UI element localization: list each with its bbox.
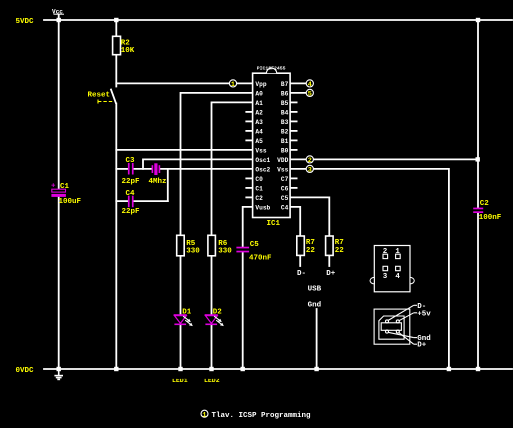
svg-text:IC1: IC1 <box>267 220 281 228</box>
wire leader D- <box>388 305 414 320</box>
resistor R5 <box>177 235 185 256</box>
svg-text:Vusb: Vusb <box>255 205 270 212</box>
svg-text:C1: C1 <box>255 186 263 193</box>
wire LED D1 to rail <box>180 324 182 369</box>
connector USB plug <box>374 305 417 344</box>
svg-text:1: 1 <box>202 411 206 419</box>
svg-text:Gnd: Gnd <box>308 301 322 309</box>
node point 2 VDD <box>306 156 313 165</box>
capacitor C2 <box>473 200 502 222</box>
resistor R8 <box>326 236 334 255</box>
resistor R6 <box>208 235 216 256</box>
pin stub C6 <box>290 187 297 189</box>
wire A0 net <box>181 93 253 235</box>
pin stub C1 <box>246 187 252 189</box>
label LED1 clipped <box>172 377 220 384</box>
wire 5VDC top rail <box>44 19 512 21</box>
wire 0VDC bottom rail <box>44 368 512 370</box>
svg-text:C2: C2 <box>255 195 263 202</box>
svg-text:330: 330 <box>218 247 232 255</box>
svg-text:D+: D+ <box>417 342 427 350</box>
svg-text:VDD: VDD <box>277 157 288 164</box>
node bottom rail / reset column <box>114 367 118 371</box>
wire gnd to C4 <box>116 200 128 202</box>
svg-text:1: 1 <box>231 81 235 89</box>
svg-text:USB: USB <box>308 285 322 293</box>
svg-text:C0: C0 <box>255 176 263 183</box>
node bottom rail / C2 <box>476 367 480 371</box>
node VDD / C2 column <box>476 157 480 161</box>
wire B7 to point 4 <box>290 82 307 84</box>
svg-text:22: 22 <box>306 247 316 255</box>
pin stub A4 <box>246 130 252 132</box>
wire leader +5v <box>399 313 414 321</box>
pin stub A3 <box>246 120 252 122</box>
svg-text:4: 4 <box>308 81 312 89</box>
connector USB pads <box>370 246 414 292</box>
svg-text:+5v: +5v <box>417 310 431 318</box>
IC U1 left pin names <box>255 81 270 212</box>
LED D2 <box>205 309 224 327</box>
wire point 3 to right column <box>313 169 449 369</box>
power symbol Vcc <box>52 8 64 15</box>
note 1 Tlav ICSP Programming <box>201 410 311 420</box>
svg-text:D+: D+ <box>326 270 336 278</box>
svg-text:470nF: 470nF <box>249 254 272 262</box>
svg-text:100uF: 100uF <box>59 198 82 206</box>
svg-text:B3: B3 <box>281 119 289 126</box>
svg-text:22pF: 22pF <box>122 208 141 216</box>
svg-text:330: 330 <box>186 247 200 255</box>
wire USB Gnd to rail <box>316 309 318 369</box>
svg-text:22: 22 <box>335 247 345 255</box>
wire R2 bottom to switch <box>115 55 117 87</box>
node bottom rail / D2 <box>209 367 213 371</box>
svg-text:A1: A1 <box>255 100 263 107</box>
wire Vcc stub <box>58 15 60 21</box>
svg-text:B5: B5 <box>281 100 289 107</box>
svg-text:C6: C6 <box>281 186 289 193</box>
svg-text:Vpp: Vpp <box>255 81 266 88</box>
svg-text:B6: B6 <box>281 91 289 98</box>
wire Vusb pin <box>243 207 253 247</box>
svg-text:D-: D- <box>297 270 306 278</box>
pin stub B2 <box>290 130 297 132</box>
svg-text:C5: C5 <box>281 195 289 202</box>
wire Vss left net <box>116 149 252 151</box>
svg-text:C7: C7 <box>281 176 289 183</box>
wire Vpp net <box>116 82 230 84</box>
wire gnd to C3 <box>116 168 128 170</box>
svg-text:5: 5 <box>308 91 312 99</box>
node bottom rail / D1 <box>178 367 182 371</box>
pin stub A2 <box>246 111 252 113</box>
svg-text:Osc1: Osc1 <box>255 157 270 164</box>
svg-text:3: 3 <box>308 167 312 175</box>
wire Osc1 net <box>143 159 253 169</box>
wire left column C1 lower <box>58 197 60 369</box>
wire C2 top column <box>477 20 479 208</box>
svg-text:B2: B2 <box>281 129 289 136</box>
svg-text:B4: B4 <box>281 110 289 117</box>
wire point 2 to C2 column <box>313 158 478 160</box>
pin stub C2 <box>246 196 252 198</box>
svg-text:A4: A4 <box>255 129 263 136</box>
svg-text:4Mhz: 4Mhz <box>149 178 167 186</box>
svg-text:A0: A0 <box>255 91 263 98</box>
svg-text:A5: A5 <box>255 138 263 145</box>
wire switch to ground column <box>115 104 117 370</box>
pin stub A5 <box>246 139 252 141</box>
wire A1 net <box>212 102 253 235</box>
svg-text:B7: B7 <box>281 81 289 88</box>
svg-text:Reset: Reset <box>88 92 111 100</box>
crystal Q 4Mhz <box>149 163 167 186</box>
svg-text:A3: A3 <box>255 119 263 126</box>
node point 4 B7 <box>306 80 313 89</box>
node point 3 Vss <box>306 165 313 174</box>
wire C4 pin to R7 <box>290 207 300 236</box>
svg-text:B0: B0 <box>281 148 289 155</box>
pin stub C7 <box>290 177 297 179</box>
switch S1 lever <box>111 90 116 103</box>
node top rail / Vcc <box>57 18 61 22</box>
resistor R7 <box>297 236 305 255</box>
svg-text:Vss: Vss <box>255 148 266 155</box>
wire left column C1 upper <box>58 20 60 189</box>
wire crystal to Osc2 <box>160 168 253 170</box>
wire C2 bottom column <box>477 213 479 369</box>
wire LED D2 to rail <box>211 324 213 369</box>
wire R5 to LED D1 <box>180 256 182 315</box>
wire C5 pin to R8 <box>290 197 329 236</box>
svg-text:100nF: 100nF <box>479 214 502 222</box>
wire C3 to crystal <box>134 168 152 170</box>
node point 1 Vpp <box>229 80 236 89</box>
capacitor C5 <box>236 241 272 262</box>
capacitor C3 <box>122 157 141 186</box>
svg-text:B1: B1 <box>281 138 289 145</box>
svg-text:Osc2: Osc2 <box>255 167 270 174</box>
svg-text:3: 3 <box>383 273 388 281</box>
svg-text:A2: A2 <box>255 110 263 117</box>
node bottom rail / C5 <box>241 367 245 371</box>
capacitor C1 <box>51 183 82 206</box>
svg-text:2: 2 <box>308 157 312 165</box>
svg-text:Vss: Vss <box>277 167 288 174</box>
pin stub B5 <box>290 101 297 103</box>
svg-text:0VDC: 0VDC <box>16 367 35 375</box>
wire B6 to point 5 <box>290 92 307 94</box>
svg-text:C5: C5 <box>250 241 260 249</box>
wire R6 to LED D2 <box>211 256 213 315</box>
svg-text:10K: 10K <box>121 47 135 55</box>
wire Vpp to IC <box>236 82 253 84</box>
wire C4 to branch <box>134 200 168 202</box>
node bottom rail / C1 <box>57 367 61 371</box>
svg-text:5VDC: 5VDC <box>16 18 35 26</box>
wire R2 top <box>115 20 117 36</box>
svg-text:C4: C4 <box>281 205 289 212</box>
pin stub C0 <box>246 177 252 179</box>
IC U1 PIC18F2455 body <box>253 66 291 229</box>
wire leader D+ <box>399 333 414 345</box>
svg-text:Tlav. ICSP Programming: Tlav. ICSP Programming <box>212 412 312 420</box>
wire R8 to D+ <box>328 255 330 266</box>
node top rail / C2 <box>476 18 480 22</box>
capacitor C4 <box>122 190 141 216</box>
wire R7 to D- <box>299 255 301 266</box>
pin stub B4 <box>290 111 297 113</box>
svg-text:4: 4 <box>395 273 400 281</box>
IC U1 right pin names <box>277 81 288 212</box>
svg-text:22pF: 22pF <box>122 178 141 186</box>
pin stub B3 <box>290 120 297 122</box>
wire Osc2 branch to C4 <box>167 169 169 201</box>
switch Reset labels <box>88 92 113 104</box>
pin stub B0 <box>290 149 297 151</box>
node bottom rail / USB gnd <box>314 367 318 371</box>
wire VDD to point 2 <box>290 158 307 160</box>
wire Vss right to point 3 <box>290 168 307 170</box>
node top rail / R2 <box>114 18 118 22</box>
resistor R2 <box>113 36 121 54</box>
wire leader Gnd <box>388 332 414 337</box>
pin stub B1 <box>290 139 297 141</box>
ground <box>54 369 63 379</box>
node bottom rail / Vss column <box>447 367 451 371</box>
LED D1 <box>174 309 193 327</box>
svg-text:PIC18F2455: PIC18F2455 <box>257 66 286 72</box>
wire C5 cap to rail <box>242 252 244 369</box>
node point 5 B6 <box>306 89 313 98</box>
svg-text:C2: C2 <box>480 200 490 208</box>
